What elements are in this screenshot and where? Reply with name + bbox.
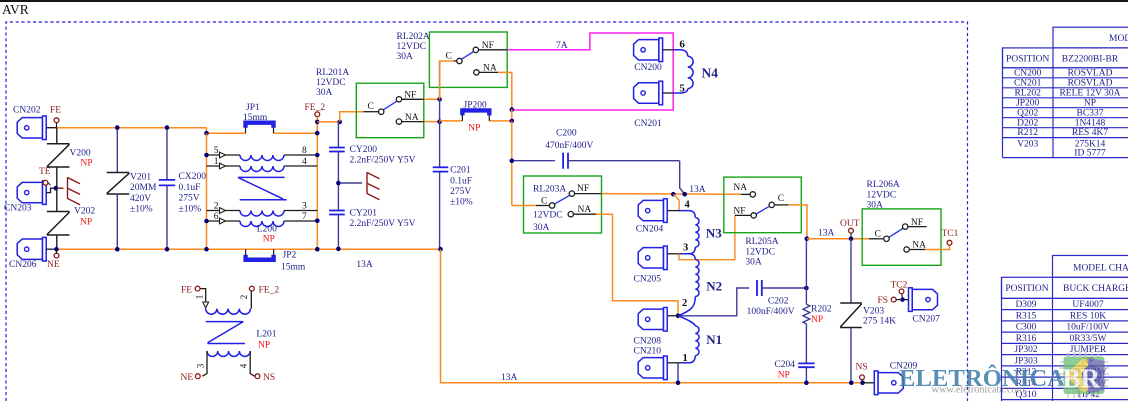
junction rail NS [860,381,865,386]
junction 13A C200 [682,192,687,197]
wire V202 bottom [56,235,58,249]
winding N3 elbow bottom [681,247,695,254]
wire RL206A NF lead [908,226,927,228]
wire NE rail [57,248,441,250]
svg-text:5: 5 [214,146,219,156]
jumper JP2 [246,249,274,260]
wire CN210 lead pin1 [667,362,681,364]
svg-text:JP200: JP200 [464,101,487,111]
capacitor C204 [798,363,814,367]
svg-text:2: 2 [239,295,249,300]
winding N4 [688,56,693,88]
svg-text:BC337: BC337 [1077,108,1104,118]
svg-text:FE_2: FE_2 [259,286,280,296]
svg-text:NA: NA [912,240,926,250]
wire pin1 to rail [677,363,679,383]
junction pin2 [676,314,681,319]
svg-text:30A: 30A [316,88,333,98]
svg-text:R315: R315 [1016,311,1037,321]
winding L201 top winding [206,309,251,315]
junction NE rail CX200 [165,247,170,252]
svg-text:15mm: 15mm [281,263,306,273]
relay RL203A box [524,176,602,233]
wire V200 top [56,128,58,144]
junction OUT [849,236,854,241]
wire L200 left bus [206,133,208,249]
svg-text:CN205: CN205 [634,275,662,285]
wire CN205 lead pin3 [667,253,681,255]
junction 13A C204 stub [671,192,676,197]
svg-text:1: 1 [683,353,688,364]
junction rail pin1 [676,381,681,386]
wire L201 pin1 leg [200,289,206,302]
wire pin lead left [207,210,241,212]
jumper JP1 [246,123,274,134]
svg-text:CN210: CN210 [634,346,662,356]
connector CN210 [638,356,667,380]
svg-text:7: 7 [302,212,307,222]
wire JP200 right stub [511,109,513,121]
wire CY201 bottom [337,215,339,249]
svg-text:C204: C204 [774,360,795,370]
svg-text:TE: TE [39,167,51,177]
wire NF lead [402,98,424,100]
svg-text:C: C [368,102,374,112]
winding N1 [695,326,699,356]
connector CN205 [638,246,667,270]
svg-text:V201: V201 [130,173,151,183]
svg-text:TC1: TC1 [942,229,959,239]
table MODEL CHARGER (bottom right) [1002,256,1128,401]
capacitor C201 [433,167,449,171]
relay RL205A box [724,177,802,233]
wire V201 top [116,128,118,173]
wire CN202 lead [46,127,56,129]
wire R202 bottom [805,324,807,364]
svg-text:15mm: 15mm [243,113,268,123]
svg-text:BZ2200BI-BR: BZ2200BI-BR [1062,54,1119,64]
node NS [860,375,865,380]
wire RL202A C feed [440,61,454,99]
svg-text:R212: R212 [1017,128,1038,138]
svg-text:RL206A: RL206A [867,180,900,190]
wire FE rail [57,127,207,129]
wire CX200 top [166,128,168,180]
winding N4 [673,50,688,56]
svg-text:JUMPER: JUMPER [1070,345,1107,355]
junction bus pin8 [315,153,320,158]
wire pin lead right [284,165,317,167]
svg-text:4: 4 [685,200,691,211]
svg-text:NE: NE [47,260,60,270]
node TC2 [899,289,904,294]
svg-text:L200: L200 [257,225,277,235]
svg-text:ROSVLAD: ROSVLAD [1068,78,1113,88]
junction rail V203 [849,381,854,386]
wire RL203A C feed [512,205,536,207]
junction NE rail CN206 [54,247,59,252]
svg-text:12VDC: 12VDC [533,211,563,221]
connector CN207 [909,288,938,312]
svg-text:NP: NP [1084,98,1096,108]
svg-text:FE: FE [50,106,61,116]
wire pin lead left [207,220,241,222]
L201 core mark [206,322,245,344]
wire to chassis TE [58,187,64,189]
connector CN200 [634,38,663,62]
svg-text:1N4148: 1N4148 [1075,118,1106,128]
junction FE bus corner [204,131,209,136]
winding L200 winding 2-3 [240,211,284,217]
junction FE rail V201 [115,125,120,130]
svg-text:NP: NP [468,124,480,134]
svg-text:D309: D309 [1015,300,1036,310]
wire NA to pin2 [596,214,678,313]
connector CN206 [17,237,46,261]
svg-text:C: C [778,194,784,204]
winding N3 [695,218,699,248]
wire RL205A C out [789,205,807,237]
svg-text:CN200: CN200 [634,63,662,73]
node FE_2 [315,112,320,117]
svg-text:N2: N2 [706,279,722,294]
wire CX200 bottom [166,185,168,249]
svg-text:C200: C200 [556,129,577,139]
wire V202 top [56,188,58,211]
svg-text:0.1uF: 0.1uF [179,183,201,193]
wire pin3 to RL205A NF [679,215,735,259]
wire FS stub [896,299,900,301]
wire RL206A C lead [869,238,884,240]
junction rail C204 [804,381,809,386]
wire FE_2 to CY junction [317,121,339,123]
wire 7A loop [507,33,673,110]
wire 13A to RL205A NA [602,193,742,196]
wire L201 pin3 leg [202,351,207,376]
svg-text:RL202: RL202 [1015,88,1042,98]
svg-text:CN202: CN202 [13,106,41,116]
svg-text:3: 3 [683,243,688,254]
svg-text:CN204: CN204 [636,225,664,235]
wire C202 to R202 [762,287,807,289]
wire to chassis CY [341,182,362,184]
varistor V202 [47,212,70,236]
winding N2 [695,260,699,297]
wire TC2 stub [901,294,904,298]
varistor V200 [47,144,70,167]
svg-text:CX200: CX200 [179,172,207,182]
svg-text:6: 6 [214,212,219,222]
junction FS [900,297,905,302]
svg-text:NF: NF [577,184,589,194]
svg-text:CN208: CN208 [634,337,662,347]
node OUT [849,228,854,233]
svg-text:MODEL CHARGER: MODEL CHARGER [1073,263,1128,273]
svg-text:UF4007: UF4007 [1072,300,1103,310]
svg-text:12VDC: 12VDC [745,247,775,257]
svg-text:30A: 30A [533,223,550,233]
wire JP200 left [440,120,463,122]
svg-text:2: 2 [214,202,219,212]
wire C200 right [568,160,680,162]
svg-text:JP2: JP2 [283,251,297,261]
svg-text:12VDC: 12VDC [397,42,427,52]
svg-text:275 14K: 275 14K [863,317,896,327]
svg-text:RELE 12V 30A: RELE 12V 30A [1059,88,1120,98]
svg-text:V203: V203 [1017,140,1038,150]
svg-text:NP: NP [778,370,790,380]
junction FE_2 relay wire [315,120,320,125]
svg-text:JP200: JP200 [1016,98,1039,108]
watermark logo [899,352,1109,400]
wire CN200 lead pin6 [663,49,674,51]
svg-text:N1: N1 [706,332,722,347]
svg-text:30A: 30A [745,258,762,268]
node FE [54,118,59,123]
wire CN203 lead [46,188,53,192]
svg-text:NP: NP [80,218,92,228]
winding N3 elbow top [679,211,695,218]
resistor R202 [803,304,810,324]
wire CN209 lead [863,382,875,384]
svg-text:470nF/400V: 470nF/400V [545,141,593,151]
svg-text:CN207: CN207 [912,315,940,325]
junction NE rail CY201 [336,247,341,252]
junction chassis CY [336,181,341,186]
capacitor CY201 [329,211,345,215]
svg-text:V203: V203 [863,306,884,316]
wire R202 top [805,239,807,305]
wire OUT stub [850,233,852,236]
chassis ground CY [367,172,380,200]
svg-text:JP302: JP302 [1014,345,1037,355]
svg-text:2: 2 [682,298,687,309]
wire RL202A NA lead [479,71,498,73]
svg-text:RL203A: RL203A [533,185,566,195]
wire L201 pin2 leg [250,291,252,309]
svg-text:4: 4 [302,157,307,167]
wire pin lead right [284,220,317,222]
svg-text:C: C [446,52,452,62]
svg-text:MODEL CHART: MODEL CHART [1109,34,1128,44]
svg-text:NA: NA [733,183,747,193]
svg-text:BR: BR [1063,364,1101,394]
connector CN209 [874,371,903,395]
wire L201 pin4 leg [250,351,254,376]
svg-text:30A: 30A [397,52,414,62]
wire V203 top [850,239,852,303]
svg-text:RL205A: RL205A [745,237,778,247]
svg-text:C202: C202 [768,297,789,307]
svg-text:C: C [541,197,547,207]
node TE [43,180,48,185]
svg-text:NE: NE [181,373,194,383]
wire bottom 13A rail [441,249,863,383]
svg-text:CN203: CN203 [4,204,32,214]
svg-text:RES 4K7: RES 4K7 [1072,128,1108,138]
svg-text:8: 8 [302,146,307,156]
node NE [54,253,59,258]
svg-text:0R33/5W: 0R33/5W [1070,334,1107,344]
node FE L201 [195,286,200,291]
wire RL206A NA lead [909,249,925,251]
svg-text:C300: C300 [1016,323,1037,333]
svg-text:7A: 7A [556,41,568,51]
node FE_2 L201 [249,286,254,291]
connector CN208 [638,308,667,332]
svg-text:POSITION: POSITION [1006,54,1049,64]
wire RL205A C lead [774,204,788,206]
svg-text:Q202: Q202 [1017,108,1038,118]
wire V201 bottom [116,194,118,249]
svg-text:CN201: CN201 [1014,78,1042,88]
wire RL201A C lead [363,111,378,113]
wire CY200 top [337,122,339,148]
winding L201 bottom winding [207,351,250,356]
wire 13A out [807,238,869,240]
svg-text:V200: V200 [70,149,91,159]
svg-text:NP: NP [81,159,93,169]
junction TE [54,186,59,191]
wire C200 down [680,161,685,195]
node NS L201 [255,374,260,379]
wire L200 right bus [316,117,318,250]
wire NA out [424,121,440,123]
svg-text:FS: FS [878,296,889,306]
wire NE stub [56,249,58,253]
varistor V201 [107,173,130,195]
wire C204 bottom [805,367,807,383]
wire RL205A NF lead [735,214,751,216]
wire NA to TC1 [925,245,949,249]
svg-text:BUCK CHARGER: BUCK CHARGER [1063,284,1128,294]
svg-text:CY201: CY201 [350,208,378,218]
wire CN208 lead pin2 [667,315,678,317]
wire JP200 right [489,120,512,122]
junction magenta JP200 right [510,107,515,112]
winding L200 winding 6-7 [240,221,284,227]
relay RL202A box [429,32,507,87]
wire CN207 lead [903,299,909,301]
wire V203 bottom [850,328,852,383]
capacitor C200 [563,153,568,169]
svg-text:ROSVLAD: ROSVLAD [1068,68,1113,78]
svg-text:±10%: ±10% [450,198,473,208]
winding L200 winding 1-4 [240,166,284,172]
wire RL203A NF lead [575,193,602,195]
wire FE stub [56,123,58,128]
svg-text:5: 5 [679,83,685,95]
junction NE rail C201 [438,247,443,252]
svg-text:RL201A: RL201A [316,68,349,78]
svg-text:CN201: CN201 [634,119,662,129]
wire pin lead left [207,154,241,156]
wire NS stub [861,380,863,383]
junction C202 R202 [804,286,809,291]
junction NE rail right bus [315,247,320,252]
svg-text:3: 3 [302,202,307,212]
svg-text:10uF/100V: 10uF/100V [1066,323,1109,333]
wire down to RL203A C [511,121,513,206]
svg-text:420V: 420V [130,194,151,204]
junction bus pin6 [204,219,209,224]
svg-text:N4: N4 [702,66,719,81]
winding N2 [689,254,696,260]
svg-text:FE_2: FE_2 [305,103,326,113]
wire C201 bottom [439,172,441,250]
capacitor C202 [757,280,762,296]
wire pin lead right [284,154,317,156]
svg-text:4: 4 [239,363,249,368]
chassis ground TE [68,177,81,205]
junction FE_2 JP1 [315,131,320,136]
jumper JP200 [462,110,489,121]
svg-text:L201: L201 [256,330,276,340]
wire RL202A C lead [454,60,457,62]
svg-text:20MM: 20MM [130,183,157,193]
wire pin2 to C202 [678,288,749,316]
svg-text:AVR: AVR [2,2,29,17]
varistor V203 [840,303,862,328]
svg-text:CY200: CY200 [350,145,378,155]
junction JP200 left [437,119,442,124]
svg-text:RES 10K: RES 10K [1070,311,1106,321]
svg-text:NP: NP [811,315,823,325]
svg-text:TC2: TC2 [891,281,908,291]
svg-text:1: 1 [195,295,205,300]
wire NA lead [402,121,424,123]
svg-text:NS: NS [263,373,275,383]
svg-text:13A: 13A [501,373,518,383]
svg-text:NP: NP [263,235,275,245]
svg-text:2.2nF/250V Y5V: 2.2nF/250V Y5V [350,219,416,229]
svg-text:12VDC: 12VDC [316,78,346,88]
junction bus pin7 [315,219,320,224]
svg-text:C: C [875,229,881,239]
junction bus pin5 [204,153,209,158]
top border line [0,0,1128,2]
wire FE rail step to JP1 [207,128,246,134]
winding L200 winding 5-8 [240,155,284,161]
junction 13A out [805,236,810,241]
connector CN203 [17,181,46,205]
svg-text:2.2nF/250V Y5V: 2.2nF/250V Y5V [350,156,416,166]
svg-text:3: 3 [196,363,206,368]
junction JP200 right lower [510,119,515,124]
junction C200 tap [510,158,515,163]
svg-text:ID 5777: ID 5777 [1074,148,1106,158]
svg-text:CN200: CN200 [1014,68,1042,78]
table MODEL CHART (top right) [1003,27,1128,157]
svg-text:0.1uF: 0.1uF [450,176,472,186]
svg-text:R202: R202 [811,305,832,315]
relay RL206A box [862,209,941,265]
node FS [891,297,896,302]
wire RL205A NA lead [741,193,750,195]
svg-text:275V: 275V [179,194,200,204]
svg-text:13A: 13A [356,260,373,270]
node NE L201 [195,374,200,379]
connector CN204 [638,199,667,223]
svg-text:±10%: ±10% [179,204,202,214]
svg-text:OUT: OUT [840,219,860,229]
wire RL202A NF lead [479,49,508,51]
node TC1 [947,240,952,245]
relay RL201A box [356,83,424,138]
junction NE rail V201 [115,247,120,252]
wire CN206 lead [46,248,56,250]
svg-text:30A: 30A [867,201,884,211]
